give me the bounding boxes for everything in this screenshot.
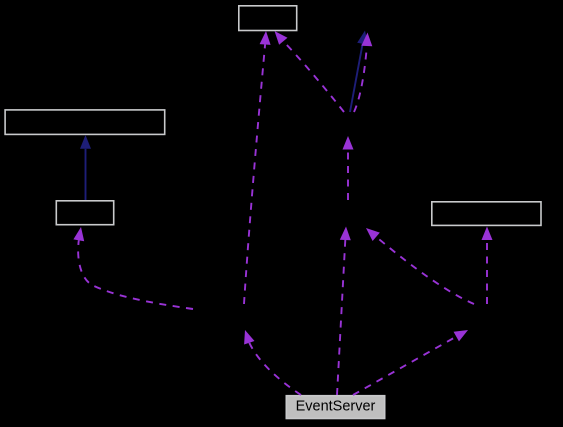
node box left large class — [5, 110, 165, 134]
svg-text:EventServer: EventServer — [296, 399, 376, 415]
node EventServer — [286, 396, 384, 419]
edge dashed center node to top-right hidden node — [354, 33, 372, 113]
edge dashed center node to top box — [275, 31, 345, 112]
node box top class — [239, 6, 297, 31]
node box right class — [432, 202, 541, 226]
edge dashed hidden node N1 to left small box — [73, 227, 193, 309]
edge dashed EventServer to hidden node N4 — [337, 227, 351, 396]
node box left small class — [56, 201, 113, 225]
edge dashed EventServer to hidden node N1 — [244, 330, 301, 395]
edge inheritance left small to left large (solid navy arrow) — [80, 135, 91, 200]
edge inheritance center node to top-right hidden node (solid navy arrow) — [350, 31, 368, 113]
edge dashed hidden node N1 to top box — [244, 31, 271, 304]
edge dashed EventServer to hidden node N5 — [353, 330, 468, 395]
edge dashed hidden node N5 to right box — [482, 227, 493, 305]
edge dashed hidden node N4 to center node — [343, 136, 354, 200]
edge dashed hidden node N5 to hidden node N4 — [366, 228, 474, 304]
